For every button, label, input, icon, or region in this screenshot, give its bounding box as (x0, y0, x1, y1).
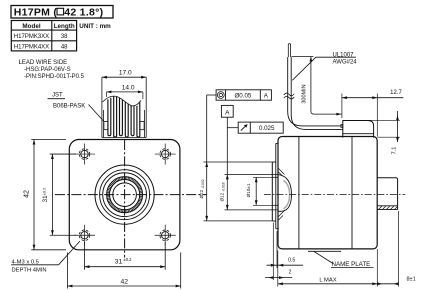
dim 31+-0.2 bottom (85, 242, 166, 270)
mounting hole BL (74, 225, 95, 246)
dim 12.7 (342, 90, 403, 136)
4-M3 thread note (12, 259, 47, 273)
svg-text:Ø22 -0.052: Ø22 -0.052 (199, 179, 205, 198)
dim 300MIN (292, 57, 342, 116)
leader runout frame (227, 127, 238, 129)
wire tip (288, 44, 290, 58)
svg-text:31: 31 (115, 259, 123, 266)
wire break marks (284, 93, 294, 99)
mounting hole BR (155, 225, 176, 246)
UL1007 AWG#24 label (333, 52, 358, 65)
dim D12 (220, 117, 278, 210)
lead wire UL1007 (288, 57, 343, 129)
circle d19 (100, 170, 150, 220)
svg-text:JST: JST (52, 93, 63, 99)
rear hub hatching (379, 206, 398, 209)
pilot boss side (272, 162, 276, 221)
dim 8+-1 (377, 211, 415, 287)
front plate (276, 144, 278, 229)
side view internal line 1 (298, 137, 300, 249)
dim D10 (246, 177, 272, 205)
connector housing right wall (140, 77, 146, 137)
svg-text:17.0: 17.0 (119, 70, 132, 77)
wire bundle wavy break line (103, 96, 142, 106)
concentricity frame (216, 90, 271, 100)
svg-text:0.5: 0.5 (288, 257, 295, 263)
model/length table (11, 21, 76, 51)
bearing ring outer (107, 177, 143, 213)
rear hub (377, 178, 397, 210)
side view body (278, 137, 377, 249)
svg-text:14.0: 14.0 (122, 85, 135, 92)
svg-text:7.1: 7.1 (391, 147, 397, 155)
svg-text:2: 2 (289, 270, 292, 276)
svg-text:12.7: 12.7 (390, 90, 402, 96)
svg-text:H17PM (: H17PM ( (14, 6, 58, 18)
dim 42 bottom (67, 253, 180, 289)
svg-text:-HSG:PAP-06V-S: -HSG:PAP-06V-S (24, 67, 71, 73)
svg-text:48: 48 (61, 45, 68, 51)
svg-text:38: 38 (61, 34, 68, 40)
lead wires bundle (108, 96, 140, 137)
svg-text:A: A (225, 110, 230, 117)
bearing bump shading (284, 181, 290, 209)
dim 17.0 (102, 70, 146, 79)
svg-text:31±0.2: 31±0.2 (41, 187, 49, 202)
svg-text:UNIT : mm: UNIT : mm (79, 23, 111, 30)
svg-text:±0.2: ±0.2 (123, 257, 132, 262)
svg-text:Model: Model (22, 23, 40, 30)
dim D22 boss (199, 95, 272, 221)
dim 0.5 (267, 231, 304, 268)
svg-text:42 1.8°): 42 1.8°) (64, 6, 103, 18)
leader to wire (292, 57, 356, 80)
title box H17PM (11, 6, 113, 19)
dim L MAX (278, 249, 378, 287)
dim 14.0 (106, 85, 142, 99)
leader from JST note to connector (48, 98, 66, 100)
datum A box (221, 105, 233, 117)
svg-text:NAME PLATE: NAME PLATE (332, 261, 371, 268)
shaft hole edges (272, 177, 278, 205)
front view horizontal centerline (55, 194, 207, 196)
dim 2 (265, 223, 292, 281)
svg-text:Length: Length (54, 23, 75, 30)
svg-text:LEAD WIRE SIDE: LEAD WIRE SIDE (19, 60, 68, 66)
svg-text:-PIN:SPHD-001T-P0.5: -PIN:SPHD-001T-P0.5 (24, 74, 85, 80)
mounting hole TL (74, 144, 95, 165)
front view square flange (69, 140, 180, 250)
name plate strip (308, 250, 341, 252)
circle d16.5 (103, 173, 147, 217)
svg-text:H17PMK4XX: H17PMK4XX (14, 45, 49, 51)
name plate label (314, 252, 374, 269)
svg-text:DEPTH 4MIN: DEPTH 4MIN (12, 268, 47, 274)
dim 42 vertical left (24, 140, 66, 250)
center hole d10 (113, 183, 137, 207)
side view internal line 2 (351, 137, 353, 249)
svg-text:B06B-PASK: B06B-PASK (53, 103, 85, 109)
bearing hatch top (279, 169, 285, 177)
JST connector note (52, 93, 85, 110)
svg-text:H17PMK3XX: H17PMK3XX (14, 34, 49, 40)
runout frame 0.025 (238, 122, 283, 133)
dim 7.1 (368, 111, 400, 154)
svg-text:Ø0.05: Ø0.05 (234, 92, 251, 99)
connector housing left wall (102, 77, 108, 137)
svg-text:Ø12 -0.018: Ø12 -0.018 (220, 182, 226, 201)
svg-text:Ø10±1: Ø10±1 (246, 183, 251, 197)
dim 31+-0.2 vertical left (41, 154, 76, 235)
svg-text:0.025: 0.025 (259, 125, 275, 132)
svg-text:42: 42 (24, 190, 31, 198)
svg-text:AWG#24: AWG#24 (333, 60, 358, 66)
svg-text:A: A (264, 92, 269, 99)
svg-text:42: 42 (121, 279, 129, 286)
svg-text:300MIN: 300MIN (302, 84, 308, 103)
mounting hole TR (155, 144, 176, 165)
front view vertical centerline (124, 140, 126, 258)
bearing ring texture (108, 178, 141, 211)
leader from thread note to hole BL (11, 241, 80, 265)
side view centerline (264, 194, 405, 196)
pilot boss circle (95, 165, 154, 224)
wire exit box (341, 121, 374, 138)
svg-text:L MAX: L MAX (319, 277, 336, 283)
bearing ring inner (110, 180, 140, 210)
connector housing bottom (102, 137, 146, 139)
lead wire side note (19, 60, 85, 80)
bearing bump (278, 174, 292, 211)
svg-text:8±1: 8±1 (407, 277, 416, 283)
leader concentricity to D22 (207, 94, 216, 96)
bearing hatch bottom (279, 210, 286, 220)
